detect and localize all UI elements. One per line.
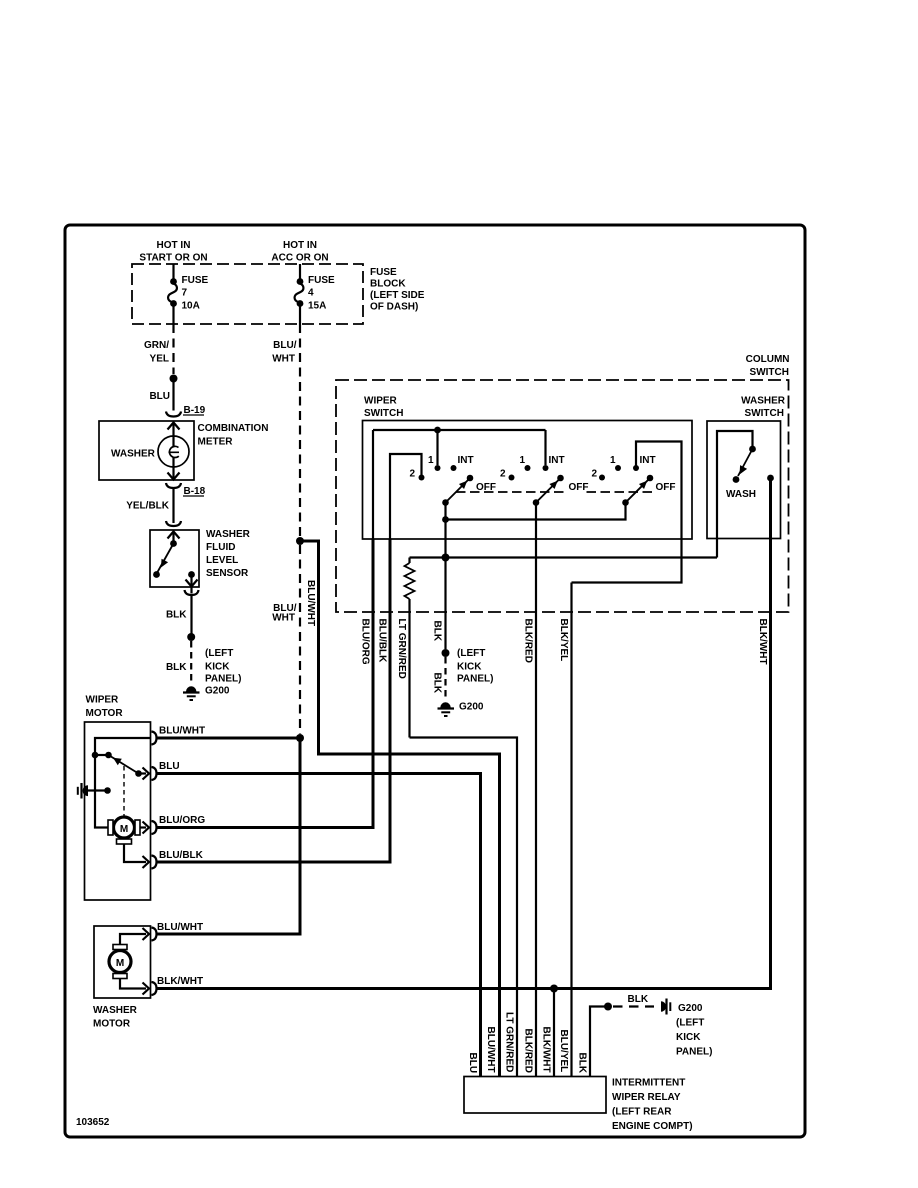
label COLUMN SWITCH xyxy=(746,354,790,378)
svg-text:BLU/BLK: BLU/BLK xyxy=(377,619,388,664)
connector B-18 xyxy=(166,483,206,497)
wire motor out BLU/BLK xyxy=(124,844,146,862)
svg-text:BLU/: BLU/ xyxy=(273,340,297,351)
svg-text:PANEL): PANEL) xyxy=(205,674,241,685)
ground G200 middle xyxy=(438,702,455,716)
fuse F4 15A xyxy=(295,275,335,312)
connector B-19 xyxy=(166,405,206,417)
wire BLK leg from pivot bus xyxy=(444,520,446,558)
wire junction to contact 1a xyxy=(436,430,438,465)
svg-text:MOTOR: MOTOR xyxy=(86,708,124,719)
svg-text:BLK: BLK xyxy=(628,994,649,1005)
switch SW1 blade xyxy=(442,475,473,506)
svg-text:BLK/RED: BLK/RED xyxy=(523,619,534,663)
wire meter internal top xyxy=(172,423,174,448)
svg-text:WASH: WASH xyxy=(726,489,756,500)
wire wiper motor internal feed xyxy=(95,738,151,828)
svg-text:(LEFT REAR: (LEFT REAR xyxy=(612,1107,672,1118)
svg-text:INT: INT xyxy=(458,455,474,466)
pin arrow BLK/WHT washer xyxy=(143,983,150,995)
wire BLK/WHT from washer switch xyxy=(769,478,771,989)
motor M2 washer xyxy=(109,945,131,979)
node splice BLU/WHT lower xyxy=(296,734,304,742)
connector cup BLU xyxy=(152,767,157,780)
node junction top bus xyxy=(434,427,441,434)
label WASHER FLUID LEVEL SENSOR xyxy=(206,529,251,579)
wire BLU/WHT to washer motor xyxy=(157,738,301,934)
switch SW1 contacts xyxy=(410,455,474,481)
wire BLK/YEL leg down xyxy=(570,583,572,1077)
wire meter internal bottom xyxy=(172,457,174,480)
wire BLK dashed to ground xyxy=(444,657,446,700)
label BLU/WHT xyxy=(272,603,296,624)
svg-text:KICK: KICK xyxy=(205,662,230,673)
svg-text:ACC OR ON: ACC OR ON xyxy=(271,253,328,264)
connector cup washer BLU/WHT xyxy=(152,928,157,941)
pin arrow BLU xyxy=(143,768,150,780)
svg-text:FUSE: FUSE xyxy=(370,267,397,278)
pin arrow BLU/ORG xyxy=(143,822,150,834)
svg-text:WIPER RELAY: WIPER RELAY xyxy=(612,1092,681,1103)
wire fuse 4 out xyxy=(299,305,301,324)
svg-text:BLU/WHT: BLU/WHT xyxy=(485,1027,496,1073)
wire GRN/YEL dashed xyxy=(172,324,174,374)
switch park contact xyxy=(105,752,112,759)
svg-text:15A: 15A xyxy=(308,301,326,312)
svg-text:BLK: BLK xyxy=(577,1053,588,1074)
svg-text:B-18: B-18 xyxy=(184,486,206,497)
node splice BLK xyxy=(187,633,195,641)
svg-text:LEVEL: LEVEL xyxy=(206,555,238,566)
wire BLU xyxy=(172,382,174,411)
pin arrow into sensor xyxy=(168,532,180,539)
node splice BLU/WHT upper xyxy=(296,537,304,545)
svg-text:BLU/WHT: BLU/WHT xyxy=(305,580,316,626)
svg-text:BLK: BLK xyxy=(166,610,187,621)
svg-text:10A: 10A xyxy=(182,301,200,312)
svg-text:YEL/BLK: YEL/BLK xyxy=(126,501,170,512)
svg-text:BLU: BLU xyxy=(467,1053,478,1074)
svg-text:HOT IN: HOT IN xyxy=(157,240,191,251)
wire BLK middle to ground xyxy=(444,558,446,650)
svg-text:COMBINATION: COMBINATION xyxy=(198,423,269,434)
washer motor box xyxy=(94,926,151,998)
switch SW2 contacts xyxy=(500,455,565,481)
svg-text:WHT: WHT xyxy=(272,354,295,365)
svg-text:PANEL): PANEL) xyxy=(457,674,493,685)
wire BLK from sensor xyxy=(190,594,192,634)
svg-text:YEL: YEL xyxy=(150,354,169,365)
svg-text:SENSOR: SENSOR xyxy=(206,568,249,579)
wire BLU/ORG run xyxy=(157,539,374,828)
washer fluid level sensor box xyxy=(150,530,199,587)
svg-text:BLU/ORG: BLU/ORG xyxy=(159,815,205,826)
svg-text:2: 2 xyxy=(592,469,598,480)
wire BLK dashed to ground right xyxy=(613,1005,654,1007)
label BLU/WHT xyxy=(272,340,296,365)
fuse F7 10A xyxy=(168,275,208,312)
svg-text:WHT: WHT xyxy=(272,613,295,624)
svg-text:BLU/ORG: BLU/ORG xyxy=(360,619,371,665)
svg-text:MOTOR: MOTOR xyxy=(93,1019,131,1030)
node splice BLK middle xyxy=(442,649,450,657)
column switch dashed box xyxy=(336,380,789,612)
svg-text:7: 7 xyxy=(182,288,188,299)
connector cup BLU/WHT xyxy=(152,732,157,745)
ground G200 left xyxy=(183,686,200,700)
connector cup washer BLK/WHT xyxy=(152,982,157,995)
node splice BLK relay xyxy=(604,1003,612,1011)
node splice GRN/YEL-BLU xyxy=(170,375,178,383)
svg-text:M: M xyxy=(116,958,124,969)
wire washer switch left terminal xyxy=(717,431,753,558)
svg-text:BLK/RED: BLK/RED xyxy=(523,1029,534,1073)
svg-text:(LEFT: (LEFT xyxy=(676,1018,704,1029)
node junction park common xyxy=(92,752,99,759)
label G200 (LEFT KICK PANEL) middle xyxy=(457,648,493,713)
node junction BLK/WHT relay tap xyxy=(550,985,558,993)
svg-text:WIPER: WIPER xyxy=(364,396,398,407)
wire top bus right leg to INT2 xyxy=(544,430,546,465)
wire fuse 7 feed xyxy=(172,264,174,280)
node HOT IN ACC OR ON xyxy=(271,240,328,264)
connector cup BLU/ORG xyxy=(152,821,157,834)
svg-text:M: M xyxy=(120,824,128,835)
svg-text:BLK: BLK xyxy=(166,662,187,673)
svg-text:WASHER: WASHER xyxy=(741,396,786,407)
label WIPER MOTOR xyxy=(86,695,124,720)
wire BLU/WHT motor run xyxy=(157,737,301,740)
switch washer WASH xyxy=(726,446,774,500)
label WIPER SWITCH xyxy=(364,396,403,420)
svg-text:(LEFT: (LEFT xyxy=(205,648,233,659)
svg-text:G200: G200 xyxy=(678,1003,703,1014)
svg-text:COLUMN: COLUMN xyxy=(746,354,790,365)
label GRN/YEL xyxy=(144,340,169,365)
svg-text:KICK: KICK xyxy=(457,662,482,673)
svg-text:(LEFT SIDE: (LEFT SIDE xyxy=(370,290,425,301)
label COMBINATION METER xyxy=(198,423,269,448)
wire BLU/BLK run xyxy=(157,539,391,862)
svg-text:BLU: BLU xyxy=(159,761,180,772)
label G200 (LEFT KICK PANEL) right xyxy=(676,1003,712,1058)
wire BLK/RED leg from SW2 pivot xyxy=(535,503,537,1077)
wiper motor box xyxy=(85,722,151,900)
wire wiper switch top bus xyxy=(373,429,546,431)
svg-text:BLOCK: BLOCK xyxy=(370,279,406,290)
svg-text:HOT IN: HOT IN xyxy=(283,240,317,251)
node junction pivot bus xyxy=(442,516,449,523)
wire BLK/WHT washer run xyxy=(157,479,771,989)
svg-text:1: 1 xyxy=(610,455,616,466)
svg-text:ENGINE COMPT): ENGINE COMPT) xyxy=(612,1121,693,1132)
wire fuse 4 feed xyxy=(299,264,301,280)
node junction BLK x LTGRN bus xyxy=(442,554,450,562)
svg-text:FUSE: FUSE xyxy=(308,275,335,286)
label G200 (LEFT KICK PANEL) xyxy=(205,648,241,697)
svg-text:B-19: B-19 xyxy=(184,405,206,416)
ground G200 right xyxy=(661,999,670,1015)
label INTERMITTENT WIPER RELAY xyxy=(612,1078,693,1133)
svg-text:GRN/: GRN/ xyxy=(144,340,169,351)
svg-text:FUSE: FUSE xyxy=(182,275,209,286)
connector at sensor xyxy=(166,519,181,526)
pin arrow out of sensor xyxy=(186,580,198,587)
resistor R1 xyxy=(405,558,415,738)
svg-text:BLU/WHT: BLU/WHT xyxy=(157,922,203,933)
svg-text:LT GRN/RED: LT GRN/RED xyxy=(504,1012,515,1072)
svg-text:BLK/WHT: BLK/WHT xyxy=(757,619,768,665)
svg-text:OF DASH): OF DASH) xyxy=(370,302,418,313)
wire BLU/WHT dashed from fuse 4 xyxy=(299,324,301,537)
wire top bus left leg down (BLU/ORG feed) xyxy=(372,430,374,539)
svg-text:BLU/YEL: BLU/YEL xyxy=(558,1030,569,1073)
svg-text:BLK/WHT: BLK/WHT xyxy=(157,976,203,987)
connector below sensor xyxy=(185,587,199,595)
wire motor out BLU/ORG xyxy=(140,826,146,828)
wire fuse 7 out xyxy=(172,305,174,324)
wire LT GRN/RED jog to relay xyxy=(410,738,518,1077)
lamp WASHER indicator xyxy=(158,436,189,467)
svg-text:1: 1 xyxy=(520,455,526,466)
svg-text:SWITCH: SWITCH xyxy=(750,367,789,378)
fuse block dashed box xyxy=(132,264,363,324)
wiper switch box xyxy=(363,421,693,540)
svg-text:G200: G200 xyxy=(459,702,484,713)
wire LT GRN/RED horizontal bus xyxy=(410,556,718,558)
svg-text:WASHER: WASHER xyxy=(93,1005,138,1016)
svg-text:BLK: BLK xyxy=(432,673,443,694)
wire BLK relay pin xyxy=(590,1007,605,1077)
motor M1 wiper xyxy=(108,817,140,844)
sensor switch xyxy=(153,532,195,587)
pin arrow into meter xyxy=(168,423,180,430)
svg-text:2: 2 xyxy=(410,469,416,480)
svg-text:BLK: BLK xyxy=(432,621,443,642)
svg-text:LT GRN/RED: LT GRN/RED xyxy=(396,619,407,679)
wire pivot bus xyxy=(446,503,626,520)
ground wiper motor xyxy=(78,783,111,799)
svg-text:WASHER: WASHER xyxy=(111,449,156,460)
wire OFF detent dashed xyxy=(456,491,652,493)
linkage dashed xyxy=(123,766,125,816)
relay K1 intermittent wiper relay box xyxy=(464,1077,606,1114)
wire washer motor top xyxy=(120,934,146,945)
svg-text:INT: INT xyxy=(640,455,656,466)
svg-text:BLU/BLK: BLU/BLK xyxy=(159,850,204,861)
svg-text:PANEL): PANEL) xyxy=(676,1047,712,1058)
svg-text:WIPER: WIPER xyxy=(86,695,120,706)
svg-text:START OR ON: START OR ON xyxy=(139,253,207,264)
node HOT IN START OR ON xyxy=(139,240,207,264)
pin arrow BLU/BLK xyxy=(143,856,150,868)
wire park out to BLU xyxy=(139,772,147,774)
svg-text:BLK/WHT: BLK/WHT xyxy=(541,1027,552,1073)
wire BLU/WHT branch to relay xyxy=(300,541,500,1077)
svg-text:BLU: BLU xyxy=(149,391,170,402)
wire park common stub xyxy=(95,754,107,756)
switch park blade xyxy=(109,755,142,777)
label WASHER MOTOR xyxy=(93,1005,138,1030)
pin arrow BLU/WHT washer xyxy=(143,928,150,940)
wire BLU/WHT dashed lower xyxy=(299,545,301,734)
svg-text:BLU/WHT: BLU/WHT xyxy=(159,726,205,737)
switch SW3 blade xyxy=(622,475,653,506)
svg-text:103652: 103652 xyxy=(76,1117,110,1128)
wire BLU run xyxy=(157,774,481,1077)
wire BLK/WHT relay pin xyxy=(553,989,555,1077)
svg-text:G200: G200 xyxy=(205,686,230,697)
svg-text:INTERMITTENT: INTERMITTENT xyxy=(612,1078,685,1089)
svg-text:OFF: OFF xyxy=(656,482,676,493)
svg-text:BLK/YEL: BLK/YEL xyxy=(558,619,569,662)
wire contact 2a feed (BLU/BLK) xyxy=(390,454,422,539)
label WASHER SWITCH xyxy=(741,396,786,420)
svg-text:INT: INT xyxy=(549,455,565,466)
svg-text:OFF: OFF xyxy=(569,482,589,493)
svg-text:WASHER: WASHER xyxy=(206,529,251,540)
washer switch box xyxy=(707,421,781,539)
switch SW3 contacts xyxy=(592,455,656,481)
svg-text:(LEFT: (LEFT xyxy=(457,648,485,659)
wire BLK dashed to ground xyxy=(190,641,192,684)
pin arrow out of meter xyxy=(168,473,180,480)
wire YEL/BLK xyxy=(172,489,174,520)
svg-text:4: 4 xyxy=(308,288,314,299)
svg-text:METER: METER xyxy=(198,437,234,448)
connector cup BLU/BLK xyxy=(152,856,157,869)
fuse block label xyxy=(370,267,425,313)
svg-text:SWITCH: SWITCH xyxy=(364,408,403,419)
svg-text:FLUID: FLUID xyxy=(206,542,235,553)
svg-text:2: 2 xyxy=(500,469,506,480)
svg-text:SWITCH: SWITCH xyxy=(745,408,784,419)
svg-text:KICK: KICK xyxy=(676,1032,701,1043)
wire washer motor bottom xyxy=(120,979,146,989)
wire INT3 riser xyxy=(572,442,682,583)
svg-text:1: 1 xyxy=(428,455,434,466)
switch SW2 blade xyxy=(533,475,564,506)
combination meter U-METER box xyxy=(99,421,194,480)
